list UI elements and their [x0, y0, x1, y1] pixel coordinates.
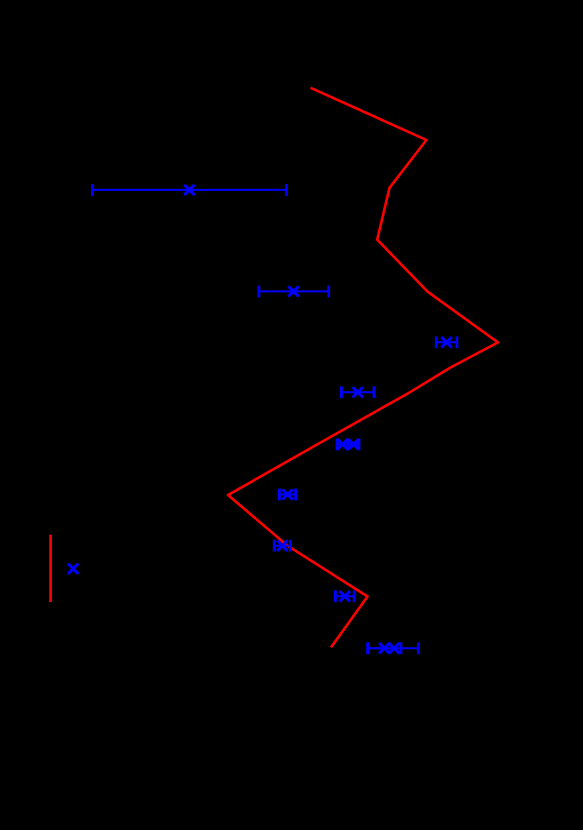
errorbar EB9b [369, 642, 419, 654]
errorbar EB8 [335, 590, 354, 602]
errorbar EB1 [92, 184, 286, 196]
errorbar EB3 [436, 336, 457, 348]
errorbar EB4 [341, 386, 374, 398]
legend red line sample [49, 535, 52, 602]
errorbar EB6 [279, 489, 295, 501]
model profile red line [228, 88, 498, 648]
errorbar EB7 [274, 540, 290, 552]
legend blue x marker [68, 564, 78, 574]
errorbar EB2 [259, 286, 329, 298]
errorbar EB5b [348, 439, 359, 451]
errorbar EB9a [368, 642, 401, 654]
errorbar EB5a [337, 439, 348, 451]
